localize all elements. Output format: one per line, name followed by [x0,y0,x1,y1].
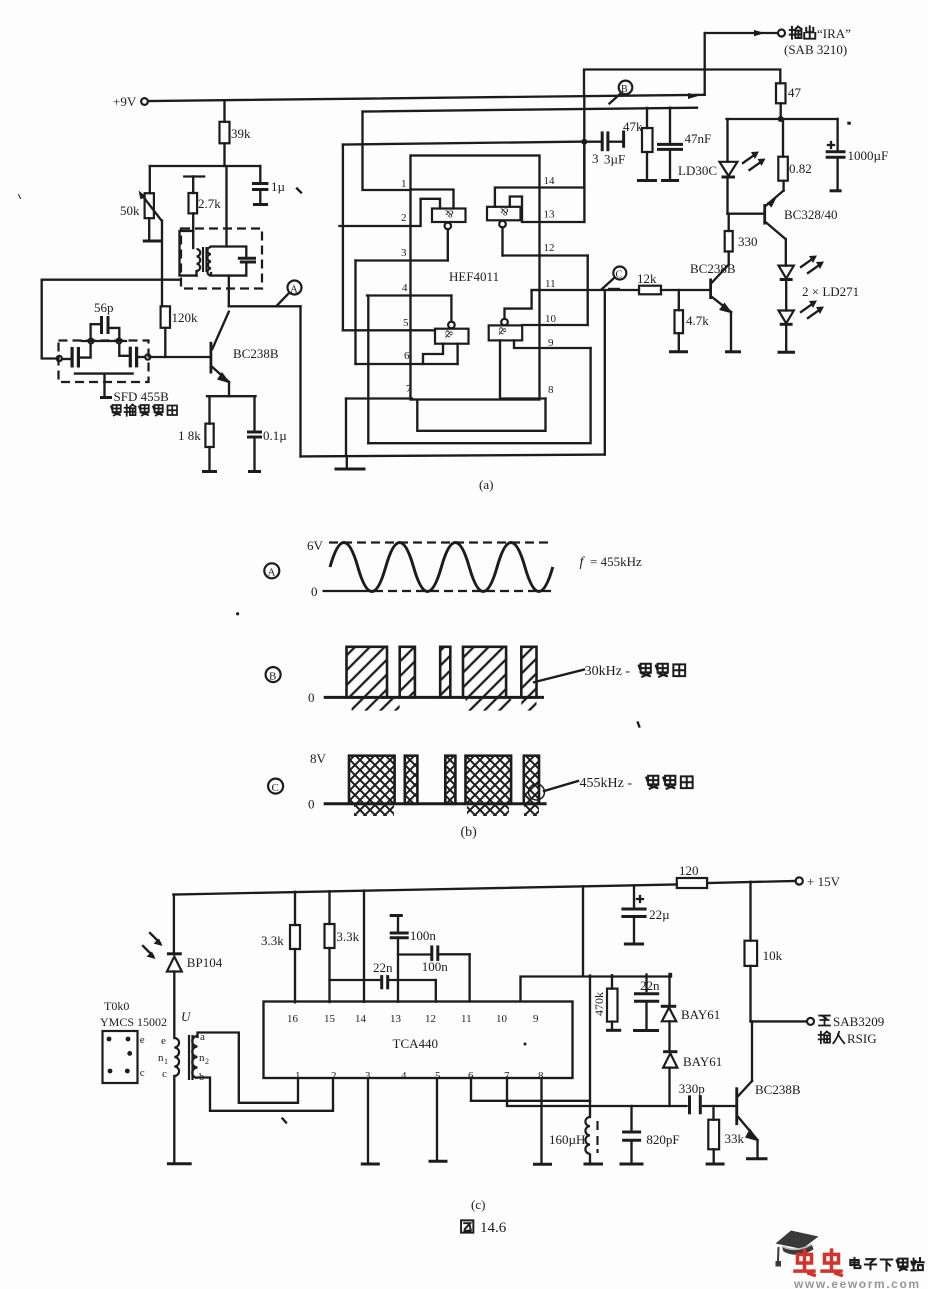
svg-text:120k: 120k [172,310,199,325]
waveform C baseline [324,802,547,805]
pin 13 [510,197,585,223]
node B box top [584,70,780,96]
capacitor 0.1u [247,396,287,470]
svg-text:50k: 50k [120,203,140,218]
svg-text:39k: 39k [231,126,251,141]
svg-text:SAB3209: SAB3209 [833,1014,884,1029]
resistor 47k [623,108,653,179]
wire feedback left [42,280,180,359]
transformer secondary and tank loop [207,247,246,276]
watermark url [793,1277,921,1289]
ground of LED chain [778,351,796,354]
resistor 120 [677,863,707,888]
wire B box left edge to junction [583,96,585,142]
wire bottom rail R1 with ground [301,290,605,456]
pin3 ground stub [361,1079,380,1165]
svg-text:BC238B: BC238B [690,261,736,276]
label (b) [461,825,478,840]
svg-text:www.eeworm.com: www.eeworm.com [793,1277,921,1289]
resistor 330 [725,214,758,265]
wire pin7 drop [345,399,347,457]
pin 12 [503,227,588,255]
gate U1B [487,206,521,228]
wire pin 11 feed [468,954,470,1001]
svg-text:56p: 56p [94,300,114,315]
ground of 50k [143,240,163,243]
transformer core [203,247,207,272]
junction dot 47 [778,116,784,122]
svg-text:47nF: 47nF [685,131,712,146]
svg-text:8V: 8V [310,751,327,766]
wire pin6 to coil [471,976,590,1118]
resistor 47 [776,83,802,119]
label (a) [479,477,493,492]
pin 14 [495,175,585,207]
svg-text:4.7k: 4.7k [686,313,709,328]
svg-text:330: 330 [738,234,758,249]
light arrows LD271 no1 [801,256,824,274]
node C pointer [602,279,620,290]
svg-text:1: 1 [295,1070,301,1082]
label 455kHz carrier [544,776,693,791]
wire secondary b to pin 2 [198,1078,334,1111]
LED LD271 no1 [779,266,794,311]
gate U1A [432,207,466,229]
svg-text:160µH: 160µH [549,1132,585,1147]
photodiode BP104 [167,954,223,1038]
svg-text:100n: 100n [422,959,449,974]
svg-text:8: 8 [548,384,554,396]
svg-text:(c): (c) [471,1197,485,1212]
pin 10 [522,313,588,325]
label ceramic filter (hanzi) [111,405,177,416]
IC HEF4011 box [411,156,540,400]
waveform C 8V label [310,751,327,766]
ground of 47nF [661,179,679,182]
label Toko [100,999,167,1029]
transformer pin box [103,1031,145,1083]
waveform C pulse 1 [349,756,395,804]
waveform B zero label [308,690,315,705]
svg-text:16: 16 [287,1013,299,1025]
stray dot [236,612,239,615]
waveform A 6V label [307,538,324,553]
resistor 1.8k [178,396,214,470]
waveform C pulse 3 [445,756,455,804]
wire BC328 collector [785,239,787,266]
pin5 ground stub [429,1079,448,1162]
svg-text:1000µF: 1000µF [848,148,889,163]
svg-text:4: 4 [402,282,408,294]
svg-text:e: e [161,1035,166,1047]
wire LED supply node [727,118,838,120]
transformer input winding [158,1035,179,1080]
filter output node [145,354,150,359]
svg-text:5: 5 [403,317,409,329]
transistor BC238B no3 [735,1081,801,1142]
capacitor 56p [91,300,120,339]
svg-text:2 × LD271: 2 × LD271 [802,284,859,299]
pin8 ground stub [533,1079,552,1165]
svg-text:9: 9 [533,1013,539,1025]
resistor 2.7k [184,177,221,249]
wire left column [173,895,175,954]
wire +15V rail right [707,881,795,883]
wire SAB output [751,1018,815,1025]
wire +15 to bias rail [582,886,584,975]
svg-text:13: 13 [544,209,556,221]
stray comma [638,723,640,727]
pin 3 [356,229,448,260]
wire pin12-10 loop vertical [587,256,589,326]
oscillator dashed box [181,229,262,289]
pin 4 [367,282,451,296]
svg-text:RSIG: RSIG [847,1031,877,1046]
svg-text:7: 7 [406,383,412,395]
waveform B node label [266,667,281,682]
pin 11 [532,278,639,290]
waveform A node label [264,563,279,578]
svg-text:SFD 455B: SFD 455B [114,389,170,404]
ground of 47k [637,179,657,182]
node B pointer [610,94,621,104]
gate U1C [435,296,469,344]
svg-text:22n: 22n [373,960,393,975]
ground of 1.8k [202,470,217,473]
stray ink mark top left [19,195,21,199]
label RSIG (hanzi) [819,1031,877,1046]
svg-text:YMCS 15002: YMCS 15002 [100,1015,167,1029]
filter input node [57,356,62,361]
waveform A zero label [311,584,318,599]
waveform B pulse 3 [440,647,450,698]
svg-text:10k: 10k [763,948,783,963]
resistor 10k [745,882,783,1022]
svg-text:BC238B: BC238B [755,1082,801,1097]
ground of 0.1u [248,470,261,473]
wire pin 9 feed [521,974,672,1001]
ground of 33k [706,1163,725,1166]
pin labels top row [287,1013,539,1025]
resistor 3.3k no2 [325,891,360,1002]
waveform B hatch overshoot [352,699,537,711]
watermark chongchong (hanzi red) [795,1250,841,1275]
watermark site name (hanzi gray) [850,1258,923,1271]
stray mark c [283,1119,287,1123]
gate U1D [489,319,523,341]
svg-text:11: 11 [461,1013,472,1025]
wire tank to collector [228,276,230,307]
capacitor 22n no2 [633,975,660,1031]
svg-text:33k: 33k [725,1131,745,1146]
ground of 4.7k [669,350,688,353]
waveform A top dashed level [329,541,549,543]
svg-text:1 8k: 1 8k [178,428,201,443]
waveform B baseline [324,696,544,699]
wire Vb pin3 to pin6 [354,261,356,365]
wire left bus Va [342,145,344,331]
resistor 12k [637,271,709,294]
svg-text:&: & [445,207,454,219]
svg-text:470k: 470k [592,992,606,1016]
filter top bus with nodes [82,339,126,344]
svg-text:BAY61: BAY61 [683,1054,722,1069]
+9V terminal [141,98,148,105]
svg-text:BP104: BP104 [187,955,223,970]
svg-text:TCA440: TCA440 [393,1036,439,1051]
label SAB 3210 [784,42,847,57]
filter bottom bus [75,374,133,397]
wire 39k node into tank [225,166,227,247]
label f=455kHz [580,554,642,570]
pin 7 [346,383,412,399]
capacitor 1000uF [826,119,889,191]
label (c) [471,1197,485,1212]
smudge circle [529,784,545,800]
svg-text:B: B [621,84,628,95]
svg-text:15: 15 [324,1013,336,1025]
waveform C pulse 5 [524,756,539,804]
wire pot wiper to 120k [161,221,163,307]
capacitor 330p [679,1081,736,1114]
resistor 4.7k [675,290,710,351]
svg-text:30kHz -: 30kHz - [585,664,631,679]
svg-text:LD30C: LD30C [678,163,717,178]
wire second rail [363,108,698,112]
svg-text:A: A [290,284,298,296]
resistor 120k [161,306,198,357]
ground of 820pF [620,1163,644,1166]
svg-text:0.1µ: 0.1µ [263,428,287,443]
svg-text:14: 14 [544,175,556,187]
label SAB3209 (hanzi) [819,1014,884,1029]
svg-text:6: 6 [404,350,410,362]
svg-text:330p: 330p [679,1081,705,1096]
svg-text:100n: 100n [410,928,437,943]
pin 8 [500,340,554,398]
waveform B pulse 2 [400,647,415,698]
svg-text:3µF: 3µF [604,152,625,167]
inductor 160uH [549,1117,598,1163]
arrowhead on +9V rail [688,93,699,99]
diode BAY61 no1 [661,974,720,1051]
svg-text:0: 0 [308,797,315,812]
svg-text:2: 2 [205,1057,209,1066]
svg-text:C: C [272,782,279,794]
svg-text:+ 15V: + 15V [807,874,841,889]
+15V terminal [796,874,841,889]
light arrows LD271 no2 [801,301,824,319]
node A pointer [277,294,289,307]
svg-text:14.6: 14.6 [480,1220,507,1236]
waveform C pulse 4 [466,756,512,804]
junction dot 3.3uF [581,139,587,145]
transformer core c [189,1035,193,1080]
svg-text:12: 12 [544,242,555,254]
capacitor 100n no2 [398,945,470,974]
wire LD30C to BC328 base [728,213,764,215]
wire collector to SAB node [751,1021,753,1081]
svg-text:10: 10 [496,1013,508,1025]
wire top bus H1 [343,142,585,145]
svg-text:12: 12 [425,1013,436,1025]
resistor 33k [708,1106,744,1163]
filter resonator elements [62,344,145,368]
stray dash mark [847,122,851,125]
wire pin14 feed [363,891,365,1002]
capacitor 22n no1 [330,960,436,989]
wire +15V rail left [173,885,676,895]
wire secondary a to pin 1 [198,1033,299,1103]
svg-text:U: U [181,1009,192,1024]
wire emitter node [207,395,256,397]
ground of emitter c [746,1140,768,1159]
wire left column to ground [167,1076,192,1164]
svg-text:120: 120 [679,863,699,878]
waveform C zero label [308,797,315,812]
wire +9V rail [148,95,705,101]
ceramic filter dashed box [59,341,149,383]
LED LD271 no2 [779,311,794,352]
svg-text:B: B [269,670,276,682]
svg-text:3.3k: 3.3k [336,929,359,944]
wire node A vertical drop [299,306,301,456]
waveform B pulse 1 [347,647,388,698]
svg-text:“IRA”: “IRA” [817,26,851,41]
wire bottom rail R3 [417,399,545,431]
wire pin1 feed [363,112,411,191]
tank capacitor [238,258,256,262]
svg-text:= 455kHz: = 455kHz [590,554,642,569]
watermark graduation cap [776,1231,819,1267]
svg-text:(b): (b) [461,825,478,840]
wire 2.7k to winding [180,231,197,276]
wire gate U1D output to pin 11 [505,290,540,319]
wire pin14-13 loop vertical [583,142,585,222]
LED LD30C [678,119,737,214]
transistor BC328/40 [763,181,837,239]
pin labels bottom row [295,1070,544,1082]
IC TCA440 [264,1002,573,1079]
stray apostrophe mark [297,189,301,193]
svg-text:C: C [616,270,623,281]
svg-text:455kHz -: 455kHz - [580,776,633,791]
label output IRA (hanzi) [790,26,851,41]
svg-text:&: & [496,327,508,336]
svg-text:3: 3 [401,247,407,259]
pin 6 [356,344,458,364]
svg-text:(SAB 3210): (SAB 3210) [784,42,847,57]
svg-text:T0k0: T0k0 [104,999,129,1013]
output wire and terminal [705,30,785,95]
svg-text:3.3k: 3.3k [261,933,284,948]
wire node A horizontal [229,305,301,307]
svg-text:3: 3 [592,151,599,166]
svg-text:0.82: 0.82 [789,161,812,176]
resistor 470k [592,975,621,1030]
waveform C pulse 2 [405,756,418,804]
svg-text:22µ: 22µ [649,907,670,922]
svg-text:2: 2 [401,212,407,224]
transformer output winding [192,1031,209,1083]
svg-text:4: 4 [401,1070,407,1082]
waveform B pulse 4 [463,647,506,698]
capacitor 100n no1 [390,916,437,1002]
svg-text:2: 2 [331,1070,337,1082]
svg-text:11: 11 [545,278,556,290]
caption fig 14.6 (hanzi) [461,1220,507,1236]
svg-text:1: 1 [401,178,407,190]
svg-text:+9V: +9V [113,94,137,109]
capacitor 1u [252,166,286,205]
waveform A sine 455kHz [330,543,553,592]
label U [181,1009,192,1024]
+9V supply label [113,94,137,109]
svg-text:2.7k: 2.7k [198,196,221,211]
diode BAY61 no2 [663,1052,722,1106]
svg-text:(a): (a) [479,477,493,492]
capacitor 3.3uF [584,131,625,167]
capacitor 820pF [622,1106,680,1163]
node A circle [288,281,302,296]
transformer primary winding [197,249,201,276]
label SFD 455B [114,389,170,404]
svg-text:BAY61: BAY61 [681,1007,720,1022]
svg-text:820pF: 820pF [646,1132,679,1147]
svg-text:22n: 22n [640,978,660,993]
svg-text:BC238B: BC238B [233,346,279,361]
waveform B pulse 5 [521,647,536,698]
svg-text:10: 10 [545,313,557,325]
ground main [335,456,366,469]
filter ground [100,396,112,399]
pin 5 [343,317,435,330]
svg-text:HEF4011: HEF4011 [449,269,499,284]
pin 1 [401,178,454,209]
light arrows BP104 [143,933,163,959]
ground of coil [584,1163,604,1166]
resistor 3.3k no1 [261,892,300,1003]
pin 2 [340,199,441,226]
svg-text:e: e [140,1034,145,1046]
capacitor 22u [621,885,670,944]
wire bottom rail R2 [368,348,590,443]
wire filter output to base [150,356,209,358]
wire pin7 to mixer [507,1078,687,1107]
transistor BC238B no1 [210,312,279,397]
wire pin 12 feed [435,980,437,1002]
ground of BC238B no2 emitter [725,312,741,352]
waveform C node label [268,779,283,794]
svg-text:&: & [500,206,509,218]
label 2xLD271 [802,284,859,299]
pin 9 [514,337,591,349]
svg-text:c: c [162,1068,167,1080]
svg-text:A: A [268,567,276,579]
node B circle [619,81,633,95]
node C circle [613,267,626,281]
light arrows LD30C [743,152,766,171]
capacitor 47nF [657,108,711,180]
label 30kHz carrier [534,664,685,682]
svg-text:47k: 47k [623,119,643,134]
svg-text:14: 14 [355,1013,367,1025]
svg-text:1µ: 1µ [271,179,286,194]
svg-text:BC328/40: BC328/40 [784,207,837,222]
svg-text:1: 1 [164,1057,168,1066]
resistor 39k [220,100,252,166]
wire pin14 loop top [583,142,585,188]
